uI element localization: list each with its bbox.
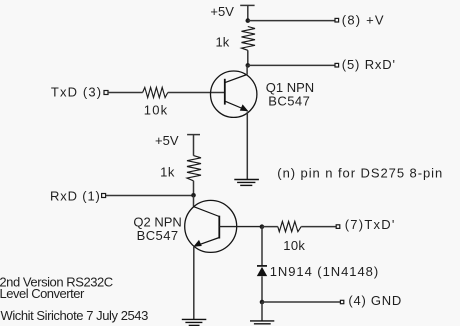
resistor R4 10k horizontal (278, 221, 301, 231)
node junction Q2 base / R4 / D1 (260, 224, 265, 229)
ground (diode/GND net) (250, 321, 274, 326)
Q1 collector diagonal (225, 75, 247, 83)
power +5V symbol (stage 2) (187, 135, 200, 156)
diode D1 cathode bar (257, 265, 267, 267)
wire node to D1 (261, 227, 263, 266)
svg-text:(n) pin n for DS275 8-pin: (n) pin n for DS275 8-pin (277, 165, 443, 180)
terminal square (4) (340, 300, 343, 303)
svg-text:(8) +V: (8) +V (342, 12, 385, 27)
wire resistor to node (247, 50, 249, 65)
Q1 emitter arrowhead (240, 104, 249, 111)
wire node to R4 (262, 226, 278, 228)
Q1 base bar (224, 79, 226, 105)
node junction top rail (246, 18, 251, 23)
Q2 emitter wire down (193, 247, 195, 320)
svg-text:+5V: +5V (155, 133, 179, 148)
terminal square RxD (102, 194, 106, 198)
wire D1 to node (4) (261, 276, 263, 302)
svg-text:BC547: BC547 (268, 93, 310, 108)
wire R3 to node (193, 181, 195, 196)
svg-text:Wichit Sirichote 7 July 2543: Wichit Sirichote 7 July 2543 (1, 308, 149, 323)
wire R2 to Q1 base (168, 92, 225, 94)
wire to (4) (262, 301, 340, 303)
wire RxD to node (106, 195, 194, 197)
terminal square (5) (335, 63, 339, 67)
wire R4 to terminal (301, 226, 336, 228)
ground (Q2 emitter) (182, 319, 207, 325)
transistor Q2 circle (185, 200, 237, 252)
resistor R3 1k vertical (187, 156, 201, 181)
wire node to ground (261, 302, 263, 321)
svg-text:(4) GND: (4) GND (348, 293, 402, 308)
transistor Q1 circle (211, 71, 257, 117)
Q1 emitter wire down (246, 112, 248, 180)
wire terminal to R2 (108, 92, 143, 94)
wire node to Q2 collector (193, 196, 195, 207)
Q2 emitter arrowhead (193, 240, 202, 247)
svg-text:Level Converter: Level Converter (0, 286, 85, 301)
Q2 collector diagonal (194, 207, 220, 217)
svg-text:Q2 NPN: Q2 NPN (133, 214, 181, 229)
Q2 base bar (218, 216, 220, 239)
svg-text:RxD (1): RxD (1) (50, 189, 101, 204)
node junction GND line (260, 300, 265, 305)
power +5V symbol (stage 1) (240, 5, 254, 20)
Q2 emitter diagonal (196, 238, 219, 246)
svg-text:TxD (3): TxD (3) (51, 85, 102, 100)
svg-text:10k: 10k (283, 238, 305, 253)
terminal square TxD (104, 91, 108, 95)
terminal square (8) (335, 18, 339, 22)
resistor R1 1k vertical (242, 27, 256, 51)
svg-text:+5V: +5V (210, 4, 234, 19)
wire to (5) (248, 64, 335, 66)
svg-text:10k: 10k (144, 102, 169, 117)
terminal square (7) (336, 225, 340, 229)
svg-text:1k: 1k (160, 165, 175, 180)
node junction Q2 collector (191, 193, 196, 198)
Q2 base lead (219, 226, 262, 228)
diode D1 triangle (257, 267, 267, 276)
svg-text:1N914 (1N4148): 1N914 (1N4148) (270, 264, 379, 279)
resistor R2 10k horizontal (143, 87, 168, 97)
ground (Q1 emitter) (234, 180, 259, 186)
node junction collector (246, 63, 251, 68)
svg-text:BC547: BC547 (137, 228, 179, 243)
svg-text:1k: 1k (216, 35, 230, 50)
Q1 emitter diagonal (225, 101, 246, 110)
Q1 collector wire up (246, 65, 248, 74)
svg-text:(5) RxD': (5) RxD' (342, 57, 396, 72)
svg-text:(7)TxD': (7)TxD' (345, 217, 396, 232)
wire to (8) (248, 20, 335, 22)
